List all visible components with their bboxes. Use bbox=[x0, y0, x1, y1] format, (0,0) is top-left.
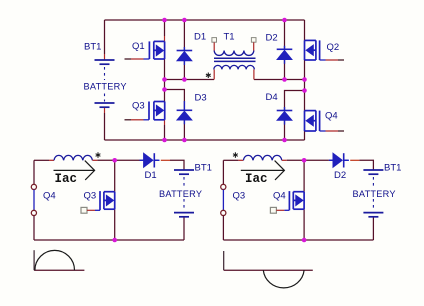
gate port square bbox=[81, 207, 87, 213]
battery BT1 top cell bbox=[174, 170, 194, 174]
transistor Q3 bbox=[149, 102, 165, 120]
wire FET drain vertical bbox=[303, 160, 305, 191]
pin stub Q1 drain bbox=[164, 36, 166, 41]
wire left vertical top bbox=[222, 160, 224, 184]
wire FET drain vertical bbox=[114, 160, 116, 191]
wire battery bottom vertical bbox=[104, 113, 106, 140]
diode D1 bbox=[177, 47, 193, 65]
component Q3 body bbox=[222, 190, 224, 211]
transformer T1 pin square left bbox=[212, 38, 217, 43]
component Q3 port circle top bbox=[221, 184, 226, 189]
wire battery bottom bbox=[183, 217, 185, 240]
transformer T1 core bbox=[214, 58, 256, 61]
transistor Q1 bbox=[149, 41, 164, 59]
wire bottom rail bbox=[223, 239, 373, 241]
wire D1 cathode from top rail bbox=[183, 20, 185, 51]
svg-text:BATTERY: BATTERY bbox=[353, 189, 396, 199]
svg-text:Q3: Q3 bbox=[132, 101, 145, 112]
battery BT1 dashed body bbox=[104, 67, 106, 102]
svg-text:D2: D2 bbox=[334, 170, 346, 181]
gate wire bbox=[276, 209, 284, 211]
svg-text:Q4: Q4 bbox=[43, 191, 56, 202]
junction dots bbox=[112, 158, 117, 242]
wire D2 anode down bbox=[284, 60, 286, 80]
label BT1 bbox=[84, 41, 101, 52]
label D2 bbox=[266, 33, 278, 44]
wire node mid-left horizontal bbox=[165, 79, 215, 81]
transformer T1 pin square right bbox=[251, 38, 256, 43]
plot half-sine positive bbox=[35, 250, 75, 270]
wire D3 branch bbox=[165, 90, 185, 111]
svg-text:D4: D4 bbox=[266, 92, 278, 103]
wire left vertical top bbox=[33, 160, 35, 184]
diode D1 bbox=[140, 153, 159, 167]
battery BT1 top cell bbox=[95, 60, 115, 64]
wire top rail to diode bbox=[92, 159, 97, 161]
plot half-sine negative bbox=[263, 270, 304, 288]
diode D2 bbox=[277, 46, 293, 64]
diode D2 bbox=[329, 153, 348, 167]
svg-text:D1: D1 bbox=[194, 32, 206, 43]
label Q4 bbox=[43, 191, 56, 202]
svg-text:BT1: BT1 bbox=[195, 163, 212, 174]
wire Q4 gate stub bbox=[326, 130, 339, 132]
label D3 bbox=[195, 93, 207, 104]
battery BT1 dashed body bbox=[183, 177, 185, 211]
label Q4 bbox=[325, 110, 338, 121]
component Q4 port circle bottom bbox=[31, 210, 36, 215]
transformer T1 top pin stubs bbox=[214, 42, 254, 50]
inductor Iac winding bbox=[243, 155, 281, 160]
wire node mid-right horizontal bbox=[254, 79, 305, 81]
wire FET source vertical bbox=[303, 209, 305, 240]
svg-text:Iac: Iac bbox=[55, 172, 78, 186]
transistor Q2 (mirrored) bbox=[305, 40, 320, 60]
wire left vertical bottom bbox=[222, 216, 224, 240]
plot axes bbox=[33, 250, 35, 270]
pin Q2 gate bbox=[320, 59, 326, 61]
label D4 bbox=[266, 92, 278, 103]
wire D2 cathode from top rail bbox=[284, 20, 286, 49]
wire Q2 source to Q4 drain bbox=[304, 60, 306, 111]
wire Q4 source to bottom rail bbox=[304, 131, 306, 140]
pin Q1 gate bbox=[144, 58, 150, 60]
current arrow Iac bbox=[54, 161, 95, 180]
junction dots top rail bbox=[162, 18, 287, 23]
wire Q1 drain bbox=[164, 20, 166, 36]
label BT1 bbox=[384, 163, 401, 174]
component Q4 body bbox=[33, 190, 35, 211]
transistor Q4 (FET) bbox=[289, 191, 304, 210]
wire Q2 gate stub bbox=[326, 59, 339, 61]
plot axes bbox=[223, 251, 225, 270]
svg-text:D2: D2 bbox=[266, 33, 278, 44]
diode D4 bbox=[277, 107, 293, 125]
wire diode to battery bbox=[154, 159, 159, 161]
svg-text:BATTERY: BATTERY bbox=[84, 82, 127, 92]
wire top rail left bbox=[223, 159, 238, 161]
pin Q4 gate bbox=[320, 130, 326, 132]
wire top rail to diode bbox=[282, 159, 287, 161]
label Q2 bbox=[327, 42, 340, 53]
junction dots mid-left node bbox=[162, 77, 187, 92]
svg-text:BT1: BT1 bbox=[384, 163, 401, 174]
gate pin bbox=[284, 209, 289, 211]
svg-text:Iac: Iac bbox=[245, 172, 268, 186]
inductor Iac winding bbox=[54, 155, 92, 160]
label BATTERY bbox=[84, 82, 127, 92]
wire top rail left bbox=[34, 159, 49, 161]
svg-text:T1: T1 bbox=[224, 32, 235, 43]
component Q3 port circle bottom bbox=[221, 210, 226, 215]
svg-text:BATTERY: BATTERY bbox=[159, 189, 202, 199]
label BT1 bbox=[195, 163, 212, 174]
pin Q3 gate bbox=[144, 119, 150, 121]
battery BT1 top cell bbox=[363, 170, 383, 174]
diode D3 bbox=[177, 101, 193, 124]
wire Q3 source to bottom rail bbox=[164, 125, 166, 140]
battery BT1 dashed body bbox=[372, 177, 374, 211]
label D1 bbox=[194, 32, 206, 43]
label Iac bbox=[55, 172, 78, 186]
label D1 bbox=[145, 170, 157, 181]
current arrow Iac bbox=[241, 161, 285, 180]
junction dots bottom rail bbox=[162, 138, 287, 143]
wire D1 anode down bbox=[183, 61, 185, 80]
battery BT1 bottom cell bbox=[95, 103, 115, 107]
junction dots bbox=[302, 158, 307, 242]
wire D4 branch bbox=[285, 91, 305, 111]
gate port square bbox=[270, 207, 276, 213]
wire battery bottom bbox=[372, 217, 374, 240]
inductor dot marker asterisk bbox=[233, 152, 238, 158]
svg-text:Q1: Q1 bbox=[132, 41, 145, 52]
transistor Q3 (FET) bbox=[100, 191, 115, 210]
label Q3 bbox=[84, 191, 97, 202]
svg-text:D3: D3 bbox=[195, 93, 207, 104]
wire Q2 drain bbox=[304, 20, 306, 40]
svg-text:Q3: Q3 bbox=[233, 191, 246, 202]
transformer T1 secondary winding bbox=[214, 65, 255, 69]
label BATTERY bbox=[159, 189, 202, 199]
component Q4 port circle top bbox=[31, 184, 36, 189]
wire top rail bbox=[105, 19, 305, 21]
label Q4 bbox=[273, 191, 286, 202]
svg-text:BT1: BT1 bbox=[84, 41, 101, 52]
gate wire bbox=[87, 209, 95, 211]
label Q3 bbox=[132, 101, 145, 112]
junction dots mid-right node bbox=[282, 77, 307, 93]
wire bottom rail bbox=[34, 239, 184, 241]
transformer T1 primary winding bbox=[214, 51, 254, 56]
pin stub battery bottom bbox=[104, 108, 106, 114]
wire left vertical battery top bbox=[104, 20, 106, 54]
battery BT1 bottom cell bbox=[363, 213, 383, 217]
wire Q3 gate stub bbox=[125, 119, 132, 121]
pin stub Q3 source bbox=[164, 120, 166, 125]
label D2 bbox=[334, 170, 346, 181]
label T1 bbox=[224, 32, 235, 43]
wire diode to battery bbox=[344, 159, 349, 161]
label Iac bbox=[245, 172, 268, 186]
inductor dot marker asterisk bbox=[96, 152, 101, 158]
battery BT1 bottom cell bbox=[174, 213, 194, 217]
wire FET source vertical bbox=[114, 209, 116, 240]
transistor Q4 (mirrored) bbox=[305, 111, 320, 131]
svg-text:D1: D1 bbox=[145, 170, 157, 181]
label Q1 bbox=[132, 41, 145, 52]
svg-text:Q2: Q2 bbox=[327, 42, 340, 53]
gate pin bbox=[95, 209, 100, 211]
transformer dot marker asterisk bbox=[206, 73, 211, 79]
svg-text:Q3: Q3 bbox=[84, 191, 97, 202]
wire Q1 gate stub bbox=[125, 58, 132, 60]
label Q3 bbox=[233, 191, 246, 202]
svg-text:Q4: Q4 bbox=[325, 110, 338, 121]
wire bottom rail bbox=[105, 139, 305, 141]
wire D3 anode to bottom rail bbox=[183, 120, 185, 140]
wire D4 anode to bottom rail bbox=[284, 120, 286, 140]
wire left vertical bottom bbox=[33, 216, 35, 240]
pin stub battery top bbox=[104, 54, 106, 60]
svg-text:Q4: Q4 bbox=[273, 191, 286, 202]
label BATTERY bbox=[353, 189, 396, 199]
transformer T1 bottom pin stubs bbox=[214, 69, 254, 79]
wire Q1 source to Q3 drain bbox=[164, 59, 166, 102]
